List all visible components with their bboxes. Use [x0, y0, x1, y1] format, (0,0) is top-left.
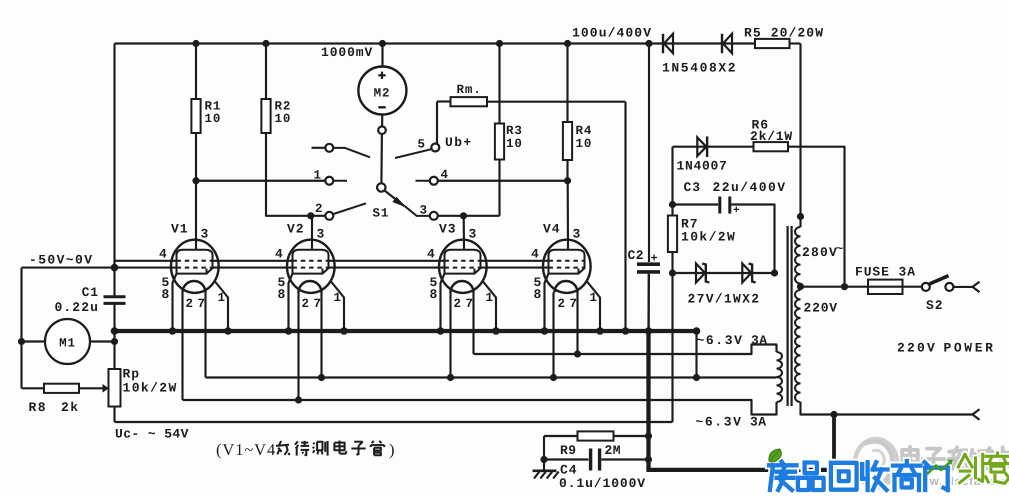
- node heater A V4 junction: [574, 350, 581, 357]
- wire Rm vertical to bus: [624, 102, 626, 331]
- svg-text:S1: S1: [373, 207, 390, 221]
- node M1 right junction: [111, 338, 118, 345]
- node C4/thick junction: [645, 456, 652, 463]
- node primary top junction: [797, 213, 804, 220]
- wire R2 top lead: [265, 44, 267, 100]
- diode D2 1N5408: [722, 34, 732, 53]
- svg-text:R9: R9: [560, 443, 576, 458]
- wire cathode bus (thick): [113, 329, 697, 333]
- wire Rm right lead: [487, 101, 626, 103]
- wire bias column upper: [671, 147, 673, 216]
- wire V1 pin2 lead: [181, 293, 183, 401]
- svg-text:M2: M2: [374, 87, 391, 101]
- node heater B bus-tap junction: [693, 374, 700, 381]
- node zener row right junction: [771, 269, 778, 276]
- wire contact-2 stub: [311, 215, 326, 217]
- node heater C V2 junction: [295, 396, 302, 403]
- svg-text:22u/400V: 22u/400V: [713, 180, 787, 195]
- diode D1 1N5408: [663, 34, 673, 53]
- wire V4 pin3 lead: [567, 181, 569, 250]
- svg-text:8: 8: [430, 287, 439, 302]
- meter M2: [358, 67, 406, 115]
- wire R9 left lead: [544, 436, 578, 460]
- wire V4 pin7 lead: [576, 293, 578, 355]
- wire V2 pin3 lead: [311, 216, 313, 250]
- meter M1: [45, 319, 90, 364]
- tube V4 plate box: [549, 250, 585, 274]
- svg-text:1: 1: [334, 291, 342, 305]
- label ~6.3V 3A bottom: [696, 415, 767, 430]
- watermark blue text feipin-huishou-shangmen: [769, 461, 948, 490]
- label R7 value: [681, 217, 736, 245]
- label contact 3: [420, 204, 428, 218]
- wire M1 right lead: [90, 340, 115, 342]
- wire thick return vertical: [832, 415, 836, 471]
- svg-text:10: 10: [275, 112, 292, 126]
- wire V3 pin2 lead: [449, 293, 451, 378]
- zener ZD1 27V: [696, 264, 709, 283]
- wire M1 left lead: [22, 340, 46, 342]
- diode D3 1N4007: [697, 136, 707, 157]
- switch S1 contact 3 finger: [405, 206, 430, 216]
- wire C2 bottom lead: [647, 274, 650, 331]
- svg-text:R4: R4: [576, 124, 593, 138]
- wire V2 pin2 lead: [297, 293, 299, 401]
- node heater B V3 junction: [447, 374, 454, 381]
- svg-text:-50V~0V: -50V~0V: [29, 253, 93, 268]
- label R2 value: [275, 100, 292, 127]
- label R4 value: [576, 124, 593, 151]
- tube V1 cathode dome: [183, 281, 206, 293]
- transformer primary 220V section: [795, 290, 801, 402]
- svg-text:10: 10: [205, 112, 222, 126]
- wire bus end to heater tap: [695, 331, 697, 378]
- switch S1 contact 5: [431, 144, 439, 152]
- node junction top R1: [192, 40, 199, 47]
- svg-text:S2: S2: [926, 298, 943, 313]
- tube V3 pin5/8 lead: [441, 274, 445, 331]
- label 220V POWER: [897, 341, 996, 356]
- resistor R5: [755, 39, 790, 48]
- svg-text:1: 1: [590, 291, 598, 305]
- svg-text:3: 3: [573, 227, 582, 242]
- label R3 value: [506, 124, 523, 151]
- switch S2 blade: [929, 276, 948, 284]
- switch S1 contact 3: [430, 212, 438, 220]
- svg-text:2: 2: [558, 297, 566, 311]
- wire heater line B to 6.3V centre tap: [206, 376, 777, 378]
- capacitor C1: [104, 297, 126, 304]
- ground chassis symbol: [533, 460, 559, 479]
- switch S2 throw: [945, 283, 953, 291]
- svg-text:3: 3: [420, 204, 428, 218]
- wire top supply rail: [115, 42, 801, 44]
- node bus junction V2 pin5/8: [285, 327, 293, 335]
- svg-text:C3: C3: [684, 180, 701, 195]
- svg-text:POWER: POWER: [944, 341, 996, 356]
- svg-text:4: 4: [159, 247, 168, 262]
- label V1 pin numbers: [159, 222, 226, 312]
- svg-text:V3: V3: [439, 222, 456, 237]
- wire heater line A to 6.3V top: [474, 345, 777, 355]
- tube V2 pin1 lead: [331, 282, 344, 332]
- svg-text:1N4007: 1N4007: [677, 159, 728, 174]
- tube V4 pin5/8 lead: [545, 274, 549, 331]
- wire contact-1 row: [196, 180, 325, 182]
- label Rm: [457, 83, 482, 97]
- wire primary top lead: [799, 217, 801, 228]
- label V4 pin numbers: [531, 222, 598, 312]
- svg-text:2: 2: [302, 297, 310, 311]
- svg-text:2k: 2k: [61, 400, 80, 415]
- node V4 pin3 junction: [564, 177, 571, 184]
- svg-text:220V: 220V: [804, 301, 838, 316]
- label 1000mV: [321, 45, 373, 60]
- label C2: [628, 248, 659, 266]
- wire left vertical from top rail: [113, 44, 115, 370]
- wire thick vertical below C2: [646, 331, 650, 470]
- wire C3 right lead: [731, 205, 774, 274]
- wire R4 top lead: [566, 44, 568, 123]
- node bus junction V1 pin1: [224, 327, 232, 335]
- svg-text:3: 3: [201, 227, 210, 242]
- node V2 pin3 junction: [307, 212, 314, 219]
- svg-text:27V/1WX2: 27V/1WX2: [688, 292, 761, 307]
- node zener row left junction: [669, 269, 676, 276]
- wire R1 bottom lead: [195, 133, 197, 181]
- wire bias column lower: [671, 252, 673, 422]
- watermark gray elecfans logo swirl: [855, 439, 897, 488]
- node bus junction V2 pin1: [340, 327, 348, 335]
- switch S1 contact A finger: [333, 148, 370, 157]
- label ~6.3V 3A top: [697, 333, 768, 348]
- svg-text:8: 8: [534, 287, 543, 302]
- wire Rm left lead: [437, 100, 451, 102]
- label R5 20/20W: [744, 26, 824, 41]
- svg-text:4: 4: [427, 247, 436, 262]
- capacitor C2: [637, 264, 660, 272]
- watermark gray elecfans text: [902, 447, 1009, 470]
- label Uc- ~ 54V: [115, 427, 189, 442]
- tube V1 plate box: [177, 250, 213, 274]
- label R9 2M: [560, 443, 621, 458]
- svg-text:10: 10: [576, 137, 593, 151]
- svg-text:R8: R8: [29, 400, 48, 415]
- node bus junction Rm column: [622, 327, 630, 335]
- resistor Rm: [451, 97, 488, 106]
- tube V3 pin1 lead: [483, 282, 496, 332]
- watermark green leaf: [769, 449, 781, 462]
- svg-text:10: 10: [506, 137, 523, 151]
- switch S1 contact 5 finger: [395, 149, 431, 158]
- switch S1 contact 1 finger: [333, 180, 347, 182]
- wire C4 right lead: [602, 458, 649, 460]
- node bus junction bus end: [693, 327, 701, 335]
- wire lower plate rail (-50V line): [22, 267, 585, 269]
- switch S1 contact A: [325, 144, 333, 152]
- label V2 pin numbers: [275, 222, 342, 312]
- svg-text:8: 8: [162, 287, 171, 302]
- svg-text:R5 20/20W: R5 20/20W: [744, 26, 824, 41]
- svg-text:10k/2W: 10k/2W: [681, 230, 736, 245]
- tube V1 pin1 lead: [215, 282, 228, 332]
- node lower-rail/left-vertical junction: [111, 264, 119, 272]
- tube V2 plate box: [293, 250, 329, 274]
- svg-text:2: 2: [186, 297, 194, 311]
- tube V3 envelope: [439, 240, 487, 293]
- resistor R3: [495, 124, 504, 160]
- transformer primary 280V section: [795, 227, 801, 284]
- wire thick bottom return: [646, 468, 836, 472]
- svg-text:10k/2W: 10k/2W: [123, 381, 178, 396]
- capacitor C3: [720, 197, 741, 218]
- wire C2 top lead: [648, 44, 650, 263]
- wire V3 pin7 lead: [472, 293, 474, 355]
- wire V1 pin7 lead: [204, 293, 206, 378]
- watermark green chart arrow: [927, 460, 953, 475]
- node junction top R3: [496, 40, 503, 47]
- svg-text:220V: 220V: [897, 341, 937, 356]
- plug prong upper: [973, 282, 980, 292]
- tube V3 cathode dome: [451, 281, 474, 293]
- label contact 1: [314, 169, 322, 183]
- watermark green chuangyi text: [958, 453, 1009, 483]
- svg-text:~: ~: [836, 242, 844, 256]
- svg-text:2M: 2M: [605, 443, 621, 458]
- label Rp value: [123, 367, 178, 396]
- svg-text:3A: 3A: [750, 415, 766, 430]
- potentiometer Rp: [109, 369, 121, 407]
- label 1N4007: [677, 159, 728, 174]
- switch S1 pivot: [377, 183, 385, 191]
- node bus junction left rail: [111, 327, 119, 335]
- tube V4 envelope: [543, 240, 591, 293]
- switch S1 contact 2 finger: [334, 203, 367, 214]
- svg-text:4: 4: [531, 247, 540, 262]
- switch S1 contact 2: [325, 212, 333, 220]
- svg-text:Ub+: Ub+: [445, 135, 473, 150]
- wire V2 pin7 lead: [320, 293, 322, 378]
- label R8 2k: [29, 400, 80, 415]
- wire R1 top lead: [195, 44, 197, 100]
- label contact 4: [441, 168, 449, 182]
- tube V1 envelope: [171, 240, 219, 293]
- wire contact-4 row: [438, 180, 568, 182]
- svg-text:V1: V1: [171, 222, 188, 237]
- wire primary bottom lead: [801, 402, 973, 415]
- node C3 left junction: [669, 201, 676, 208]
- svg-text:C1: C1: [82, 285, 99, 300]
- svg-text:~6.3V: ~6.3V: [697, 333, 744, 348]
- node bus junction C2 column: [645, 327, 653, 335]
- node bus junction V3 pin1: [492, 327, 500, 335]
- resistor R9: [578, 431, 614, 440]
- transformer core: [788, 226, 792, 406]
- svg-text:C2: C2: [628, 248, 644, 263]
- label C1 value: [54, 285, 99, 315]
- wire R6 right lead: [788, 147, 845, 287]
- node bus junction V3 pin5/8: [437, 327, 445, 335]
- node C4/ground junction: [540, 456, 547, 463]
- wire Rp bottom lead: [113, 407, 115, 423]
- wire contact-3 row: [438, 215, 500, 217]
- node bus junction V1 pin5/8: [169, 327, 177, 335]
- resistor R1: [191, 99, 200, 133]
- wire R5 to transformer: [799, 44, 801, 217]
- label R1 value: [205, 100, 222, 127]
- wire R8 right lead to Rp wiper: [79, 384, 109, 393]
- switch S1 contact 4: [430, 177, 438, 185]
- svg-text:8: 8: [278, 287, 287, 302]
- label Ub+: [445, 135, 473, 150]
- wire heater line C to 6.3V bottom: [183, 400, 777, 415]
- plug prong lower: [973, 409, 980, 419]
- svg-text:280V: 280V: [802, 245, 838, 260]
- node heater B V4 junction: [550, 374, 557, 381]
- tube V4 cathode dome: [555, 281, 578, 293]
- label 100u/400V: [572, 26, 652, 41]
- wire contact5 to Rm: [436, 102, 438, 145]
- label contact 5: [418, 138, 426, 152]
- wire far-left vertical: [20, 268, 22, 389]
- resistor R8: [44, 384, 79, 393]
- label 27V/1WX2: [688, 292, 761, 307]
- tube V4 pin1 lead: [587, 282, 600, 332]
- svg-text:2: 2: [315, 202, 323, 216]
- svg-text:Uc- ~ 54V: Uc- ~ 54V: [115, 427, 189, 442]
- svg-text:4: 4: [275, 247, 284, 262]
- wire zener row: [673, 272, 775, 274]
- switch S1 contact 1: [325, 177, 333, 185]
- node bus junction V4 pin5/8: [541, 327, 549, 335]
- svg-text:2k/1W: 2k/1W: [750, 129, 793, 144]
- node junction top R4: [564, 40, 571, 47]
- wire C3 left lead: [673, 203, 719, 205]
- label FUSE 3A: [855, 265, 916, 280]
- label V3 pin numbers: [427, 222, 494, 312]
- wire M2 terminal to S1 pivot: [380, 134, 383, 183]
- label 220V: [804, 301, 838, 316]
- wire R8 left lead: [22, 387, 45, 389]
- node R9/thick junction: [645, 432, 652, 439]
- wire M2 bottom lead: [381, 115, 383, 127]
- svg-text:~6.3V: ~6.3V: [696, 415, 743, 430]
- svg-text:R3: R3: [506, 124, 523, 138]
- svg-text:1000mV: 1000mV: [321, 45, 373, 60]
- svg-text:3: 3: [469, 227, 478, 242]
- svg-text:3: 3: [317, 227, 326, 242]
- watermark gray url: [909, 476, 1009, 488]
- node junction top R2: [262, 40, 269, 47]
- resistor R7: [668, 216, 677, 253]
- svg-text:100u/400V: 100u/400V: [572, 26, 652, 41]
- switch S2 pole: [922, 283, 930, 291]
- fuse FUSE 3A: [868, 280, 903, 294]
- node M2 output terminal: [378, 126, 386, 134]
- label C3 value: [684, 180, 787, 195]
- svg-text:3A: 3A: [751, 333, 767, 348]
- wire R4 bottom lead: [566, 160, 568, 181]
- wire R3 top lead: [498, 44, 500, 124]
- svg-text:0.22u: 0.22u: [54, 300, 99, 315]
- label contact 2: [315, 202, 323, 216]
- wire C4 left lead: [544, 458, 589, 460]
- switch S1 contact A stub: [312, 147, 326, 149]
- label 1N5408X2: [662, 61, 737, 76]
- label -50V~0V: [29, 253, 93, 268]
- zener ZD2 27V: [742, 264, 755, 283]
- label S2: [926, 298, 943, 313]
- node primary 220V tap: [797, 283, 804, 290]
- wire R3 bottom lead: [498, 160, 500, 216]
- wire V1 pin3 lead: [195, 181, 197, 250]
- switch S1 contact 4 finger: [416, 180, 430, 182]
- svg-text:Rp: Rp: [123, 367, 140, 382]
- svg-text:Rm.: Rm.: [457, 83, 482, 97]
- wire R9 right lead: [614, 435, 649, 437]
- node bus junction V4 pin1: [596, 327, 604, 335]
- label S1: [373, 207, 390, 221]
- node heater B V2 junction: [318, 374, 325, 381]
- node R1/contact1 junction: [192, 177, 199, 184]
- label caption (V1~V4 are tubes under test): [216, 440, 395, 459]
- node V3 pin3 junction: [460, 212, 467, 219]
- switch S1 arm with arrow: [384, 190, 404, 206]
- svg-text:V4: V4: [543, 222, 560, 237]
- svg-text:5: 5: [418, 138, 426, 152]
- svg-text:+: +: [733, 205, 741, 217]
- tube V3 plate box: [445, 250, 481, 274]
- svg-text:V2: V2: [287, 222, 304, 237]
- node M1 left junction: [18, 338, 25, 345]
- resistor R2: [261, 99, 270, 133]
- node junction top C2: [645, 40, 652, 47]
- wire upper plate rail (pin 4 bus): [115, 261, 585, 268]
- wire M2 top lead: [381, 44, 383, 67]
- wire R2 bottom lead: [266, 133, 312, 216]
- wire V3 pin3 lead: [463, 216, 465, 250]
- svg-text:1: 1: [314, 169, 322, 183]
- label 280V: [802, 242, 844, 260]
- svg-text:1: 1: [218, 291, 226, 305]
- tube V1 pin5/8 lead: [173, 274, 177, 331]
- wire S2 to plug: [954, 286, 973, 288]
- svg-text:1N5408X2: 1N5408X2: [662, 61, 737, 76]
- node junction top M2: [379, 40, 386, 47]
- wire Uc row: [115, 421, 673, 423]
- svg-text:): ): [389, 440, 395, 459]
- resistor R6: [754, 142, 789, 151]
- tube V2 envelope: [287, 240, 335, 293]
- wire 1N4007 row: [673, 146, 754, 148]
- tube V2 pin5/8 lead: [289, 274, 293, 331]
- node return junction: [830, 411, 837, 418]
- svg-text:M1: M1: [59, 337, 76, 351]
- svg-text:0.1u/1000V: 0.1u/1000V: [559, 476, 646, 491]
- wire fuse row: [801, 286, 922, 288]
- resistor R4: [563, 122, 572, 160]
- node R6 drop junction: [841, 283, 848, 290]
- transformer secondary 6.3V winding: [777, 352, 783, 402]
- svg-text:FUSE 3A: FUSE 3A: [855, 265, 916, 280]
- wire V4 pin2 lead: [552, 293, 554, 378]
- label R6 value: [750, 118, 793, 145]
- capacitor C4: [591, 449, 600, 471]
- svg-text:2: 2: [454, 297, 462, 311]
- svg-text:(V1~V4: (V1~V4: [216, 440, 276, 459]
- svg-text:1: 1: [486, 291, 494, 305]
- label C4 value: [559, 463, 646, 492]
